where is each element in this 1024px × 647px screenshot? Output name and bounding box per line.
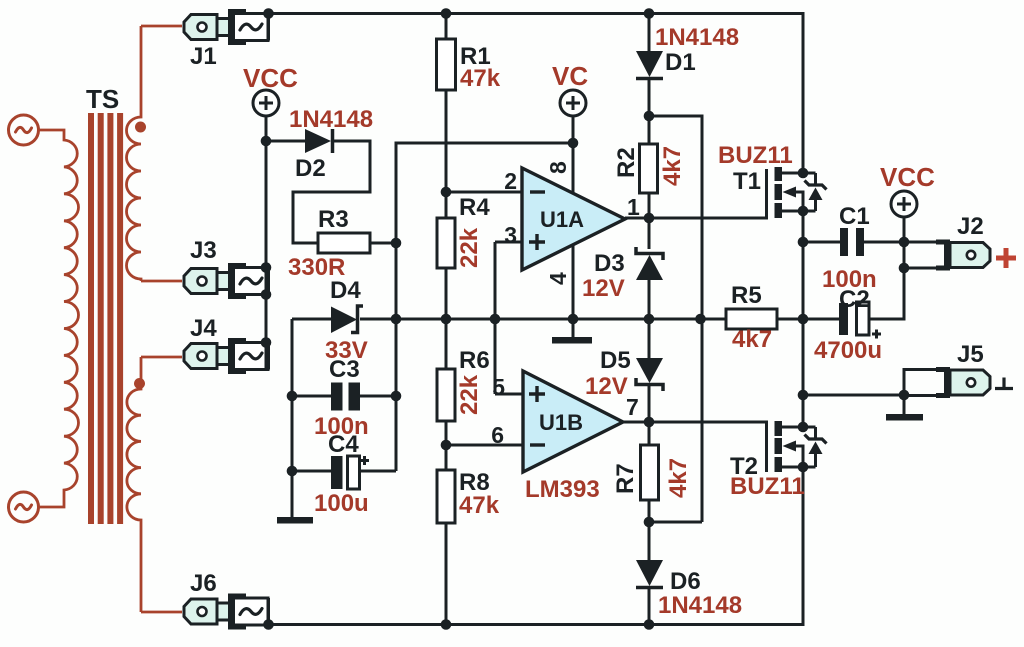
- wire R1 top: [445, 14, 448, 40]
- wire pin 6 of U1B: [446, 444, 524, 447]
- resistor R7 value: [665, 458, 692, 498]
- resistor R2 label: [613, 147, 640, 178]
- connector J6 label: [190, 570, 217, 597]
- zener D4 value: [325, 337, 368, 364]
- transformer polarity dot (bottom secondary): [134, 378, 145, 389]
- junction T2 drain: [798, 422, 809, 433]
- junction C1 row: [798, 237, 809, 248]
- zener D5 value: [585, 373, 628, 400]
- svg-text:D6: D6: [670, 568, 701, 595]
- junction D1 top: [644, 8, 655, 19]
- junction T1 source: [798, 206, 809, 217]
- wire VCC to D2 anode: [266, 140, 305, 143]
- wire secondary top to J1: [141, 25, 182, 28]
- wire C3 row left: [292, 395, 331, 398]
- capacitor C1 value: [822, 266, 877, 293]
- resistor R1: [437, 39, 456, 90]
- wire J5 bottom stub: [904, 394, 936, 397]
- junction D6 bottom rail: [644, 619, 655, 630]
- junction R1 top: [441, 8, 452, 19]
- svg-text:1N4148: 1N4148: [658, 592, 742, 619]
- junction J2 bottom: [899, 263, 910, 274]
- junction D4 / VC column: [391, 314, 402, 325]
- svg-text:4k7: 4k7: [659, 146, 686, 186]
- diode D2 value: [289, 106, 373, 133]
- transformer polarity dot (top secondary): [135, 122, 146, 133]
- connector J2: [936, 240, 990, 271]
- svg-text:R2: R2: [613, 147, 640, 178]
- wire divider column R4-R6: [445, 268, 448, 369]
- resistor R6: [437, 369, 455, 421]
- svg-text:4k7: 4k7: [732, 326, 772, 353]
- diode D1: [636, 51, 663, 79]
- transistor T2 label: [730, 453, 758, 480]
- wire divider column R6-R8: [445, 421, 448, 470]
- svg-text:3: 3: [504, 222, 517, 248]
- wire divider column R8 to bottom rail: [445, 523, 448, 625]
- capacitor C4 value: [314, 490, 369, 517]
- capacitor C3 label: [329, 356, 360, 383]
- zener diode D3: [636, 247, 663, 280]
- ground marker at J5: [995, 378, 1013, 389]
- wire D4 cathode to VC column: [360, 318, 396, 321]
- junction C3 / VC column: [391, 391, 402, 402]
- resistor R5 label: [731, 282, 762, 309]
- diode D1 label: [665, 49, 696, 76]
- transistor T1 (BUZ11 N-MOSFET): [767, 167, 827, 218]
- transformer secondary winding (bottom): [127, 357, 141, 612]
- connector J1: [184, 9, 269, 45]
- diode D6 value: [658, 592, 742, 619]
- junction VC / pin8: [568, 138, 579, 149]
- wire J5 to ground: [903, 395, 906, 414]
- junction feedback column mid rail: [695, 314, 706, 325]
- resistor R4: [437, 218, 455, 268]
- resistor R7: [641, 445, 659, 500]
- connector J3: [184, 263, 269, 299]
- op-amp U1A name: [540, 207, 584, 232]
- op-amp U1A minus input mark: [530, 190, 545, 193]
- wire C1 row left: [803, 241, 840, 244]
- transistor T2 value: [730, 473, 805, 500]
- svg-text:12V: 12V: [585, 373, 628, 400]
- capacitor C4 (polarized): [331, 456, 369, 489]
- junction D3/D5 mid rail: [644, 314, 655, 325]
- wire U1B output to T2 gate: [623, 422, 767, 472]
- connector J6: [184, 594, 269, 630]
- transformer secondary winding (top): [127, 26, 141, 281]
- svg-text:7: 7: [626, 394, 639, 420]
- U1B pin 5 number: [492, 374, 505, 400]
- capacitor C1 label: [839, 203, 870, 230]
- svg-text:J1: J1: [190, 43, 217, 70]
- resistor R8: [437, 470, 455, 523]
- wire R5 right to C2: [777, 318, 840, 321]
- capacitor C2 (polarized): [839, 302, 881, 339]
- power symbol VC label: [552, 61, 588, 91]
- AC source symbol (top, primary): [9, 115, 39, 145]
- wire C4 row left: [292, 470, 331, 473]
- power symbol VC: [560, 90, 586, 116]
- ground (J5): [886, 414, 923, 421]
- wire D2 cathode loop to R3: [293, 141, 370, 243]
- resistor R8 label: [459, 469, 490, 496]
- junction pin4 ground mid rail: [568, 314, 579, 325]
- capacitor C3: [331, 383, 360, 411]
- junction T2 source: [798, 462, 809, 473]
- wire T1 source to T2 drain rail: [802, 211, 805, 427]
- wire J2 top stub: [904, 241, 936, 244]
- junction U1B output node: [644, 417, 655, 428]
- AC source symbol (bottom, primary): [9, 492, 39, 522]
- power symbol VCC (right): [891, 191, 917, 217]
- svg-text:U1B: U1B: [539, 410, 583, 435]
- junction divider mid rail: [441, 314, 452, 325]
- wire R3 right to VC node: [370, 242, 396, 245]
- svg-text:5: 5: [492, 374, 505, 400]
- zener diode D5: [636, 358, 663, 391]
- svg-text:1N4148: 1N4148: [289, 106, 373, 133]
- transformer primary winding: [39, 130, 79, 507]
- resistor R5: [726, 309, 777, 329]
- wire left rail VCC to J4: [265, 116, 268, 370]
- power symbol VCC (right) label: [880, 162, 935, 192]
- svg-text:C2: C2: [839, 286, 870, 313]
- svg-text:C1: C1: [839, 203, 870, 230]
- wire D4 anode: [292, 318, 331, 321]
- svg-text:12V: 12V: [582, 275, 625, 302]
- svg-text:C4: C4: [328, 431, 359, 458]
- transistor T1 value: [718, 142, 793, 169]
- svg-text:J6: J6: [190, 570, 217, 597]
- svg-text:R5: R5: [731, 282, 762, 309]
- junction J3 top stub: [261, 262, 272, 273]
- resistor R6 label: [459, 347, 490, 374]
- wire D6 cathode to bottom rail: [648, 588, 651, 625]
- svg-text:D1: D1: [665, 49, 696, 76]
- svg-text:TS: TS: [86, 84, 119, 114]
- svg-text:D3: D3: [594, 250, 625, 277]
- svg-text:R6: R6: [459, 347, 490, 374]
- ground (U1A pin 4): [552, 337, 592, 344]
- junction R8 bottom rail: [441, 619, 452, 630]
- diode D6: [636, 560, 663, 588]
- wire U1A output to T1 gate: [625, 169, 767, 218]
- U1B pin 7 number: [626, 394, 639, 420]
- power symbol VCC (left): [253, 90, 279, 116]
- junction J3 bottom stub: [261, 289, 272, 300]
- op-amp U1B plus input mark: [529, 386, 545, 402]
- wire D1 cathode to R2: [648, 79, 651, 144]
- capacitor C4 label: [328, 431, 359, 458]
- svg-text:100u: 100u: [314, 490, 369, 517]
- svg-text:R7: R7: [612, 463, 639, 494]
- plus output marker at J2: [996, 248, 1016, 268]
- resistor R6 value: [456, 374, 483, 415]
- wire pin 2 of U1A: [446, 191, 523, 194]
- transformer TS core: [88, 113, 123, 524]
- junction pin6 node: [441, 440, 452, 451]
- zener D3 label: [594, 250, 625, 277]
- wire T2 source to bottom rail: [269, 467, 804, 625]
- junction C2 row: [798, 314, 809, 325]
- wire J2 bottom stub: [904, 267, 936, 270]
- svg-text:VCC: VCC: [243, 63, 298, 93]
- power symbol VCC (left) label: [243, 63, 298, 93]
- wire C1 row right: [864, 241, 904, 244]
- connector J1 label: [190, 43, 217, 70]
- svg-text:22k: 22k: [456, 374, 483, 415]
- junction J5 ground: [899, 390, 910, 401]
- diode D1 value: [655, 24, 739, 51]
- resistor R1 value: [460, 65, 501, 92]
- junction pin2 node: [441, 187, 452, 198]
- svg-text:R3: R3: [318, 206, 349, 233]
- junction pin3/pin5 mid rail: [490, 314, 501, 325]
- junction J6 bottom rail: [263, 619, 274, 630]
- wire gate node feedback top: [649, 116, 702, 522]
- wire pin 3 of U1A: [495, 241, 523, 244]
- wire pin 5 of U1B: [495, 393, 524, 396]
- svg-text:22k: 22k: [456, 227, 483, 268]
- svg-text:D4: D4: [330, 277, 361, 304]
- op-amp U1B name: [539, 410, 583, 435]
- U1A pin 1 number: [627, 194, 640, 220]
- U1A pin 8 number: [545, 161, 571, 174]
- svg-text:J2: J2: [957, 213, 984, 240]
- wire C2 right to J2 riser: [868, 268, 904, 319]
- connector J3 label: [190, 237, 217, 264]
- op-amp U1B minus input mark: [530, 443, 545, 446]
- svg-text:1: 1: [627, 194, 640, 220]
- diode D6 label: [670, 568, 701, 595]
- wire pin3/pin5 column: [494, 242, 497, 394]
- junction T1 drain: [798, 168, 809, 179]
- svg-text:R4: R4: [459, 194, 490, 221]
- svg-text:BUZ11: BUZ11: [718, 142, 793, 169]
- wire C4 right plate to VC column: [361, 470, 396, 473]
- junction J1 / top rail: [263, 8, 274, 19]
- junction U1A output node: [644, 213, 655, 224]
- connector J4 label: [190, 315, 217, 342]
- diode D2: [305, 129, 333, 153]
- resistor R4 value: [456, 227, 483, 268]
- svg-text:2: 2: [504, 168, 517, 194]
- capacitor C1: [840, 228, 864, 256]
- connector J5: [936, 367, 990, 398]
- capacitor C2 label: [839, 286, 870, 313]
- wire R7 bottom to D6: [648, 500, 651, 561]
- zener D5 label: [600, 347, 631, 374]
- zener D4 label: [330, 277, 361, 304]
- connector J4: [184, 338, 269, 374]
- op-amp U1A plus input mark: [529, 234, 545, 250]
- U1A pin 4 number: [545, 272, 571, 285]
- wire J5 top stub: [904, 370, 936, 396]
- junction J5 row: [798, 390, 809, 401]
- svg-text:J3: J3: [190, 237, 217, 264]
- junction J4 top stub: [261, 337, 272, 348]
- resistor R2: [640, 144, 658, 193]
- wire secondary to J3: [141, 280, 182, 283]
- junction R3 / VC column: [391, 238, 402, 249]
- transformer TS label: [86, 84, 119, 114]
- wire secondary to J4: [141, 356, 182, 359]
- transistor T1 label: [733, 168, 761, 195]
- ground (C3/C4): [277, 517, 313, 524]
- transistor T2 (BUZ11 N-MOSFET): [767, 421, 827, 472]
- wire pin 8 of U1A: [572, 116, 575, 194]
- junction C3 left: [287, 391, 298, 402]
- junction VCC/C1/J2: [899, 237, 910, 248]
- resistor R5 value: [732, 326, 772, 353]
- wire top rail J1 to top-right corner: [269, 14, 804, 174]
- wire pin 4 of U1A to ground: [572, 244, 575, 337]
- svg-text:D2: D2: [295, 155, 326, 182]
- op-amp U1A body: [522, 168, 625, 270]
- svg-text:VC: VC: [552, 61, 588, 91]
- U1B pin 6 number: [491, 422, 504, 448]
- svg-text:C3: C3: [329, 356, 360, 383]
- svg-text:D5: D5: [600, 347, 631, 374]
- junction VCC rail / D2: [261, 136, 272, 147]
- capacitor C3 value: [314, 413, 369, 440]
- op-amp U1B body: [523, 371, 623, 472]
- svg-text:6: 6: [491, 422, 504, 448]
- wire D3 anode to mid rail: [648, 280, 651, 358]
- svg-text:U1A: U1A: [540, 207, 584, 232]
- wire secondary bottom to J6: [141, 611, 182, 614]
- resistor R2 value: [659, 146, 686, 186]
- svg-text:J5: J5: [957, 341, 984, 368]
- wire D1 top: [648, 14, 651, 52]
- svg-text:4k7: 4k7: [665, 458, 692, 498]
- resistor R3 label: [318, 206, 349, 233]
- svg-text:47k: 47k: [460, 65, 501, 92]
- wire divider column R1-R4: [445, 90, 448, 218]
- op-amp U1 part value: [525, 476, 600, 503]
- resistor R4 label: [459, 194, 490, 221]
- capacitor C2 value: [814, 337, 882, 364]
- wire D4 anode column to ground: [291, 319, 294, 517]
- wire D5 cathode to U1B output node: [648, 384, 651, 445]
- svg-text:LM393: LM393: [525, 476, 600, 503]
- wire VCC right to C1 row: [903, 217, 906, 268]
- svg-text:8: 8: [545, 161, 571, 174]
- svg-text:4: 4: [545, 272, 571, 285]
- svg-text:VCC: VCC: [880, 162, 935, 192]
- connector J2 label: [957, 213, 984, 240]
- wire R2 bottom to U1A output node: [648, 193, 651, 249]
- svg-text:1N4148: 1N4148: [655, 24, 739, 51]
- junction C4 left: [287, 466, 298, 477]
- resistor R8 value: [459, 492, 500, 519]
- wire VC vertical node column: [396, 143, 573, 471]
- zener diode D4: [331, 306, 363, 333]
- svg-text:47k: 47k: [459, 492, 500, 519]
- U1A pin 2 number: [504, 168, 517, 194]
- svg-text:4700u: 4700u: [814, 337, 882, 364]
- wire C3 row right: [360, 395, 396, 398]
- resistor R3: [318, 233, 370, 253]
- junction R7 bottom: [644, 517, 655, 528]
- svg-text:BUZ11: BUZ11: [730, 473, 805, 500]
- diode D2 label: [295, 155, 326, 182]
- resistor R3 value: [288, 254, 345, 281]
- wire T2 drain rail to J5: [803, 394, 904, 397]
- U1A pin 3 number: [504, 222, 517, 248]
- svg-text:J4: J4: [190, 315, 217, 342]
- zener D3 value: [582, 275, 625, 302]
- junction D1 cathode node: [644, 111, 655, 122]
- connector J5 label: [957, 341, 984, 368]
- resistor R1 label: [460, 43, 491, 70]
- wire mid reference rail: [396, 318, 726, 321]
- svg-text:T1: T1: [733, 168, 761, 195]
- resistor R7 label: [612, 463, 639, 494]
